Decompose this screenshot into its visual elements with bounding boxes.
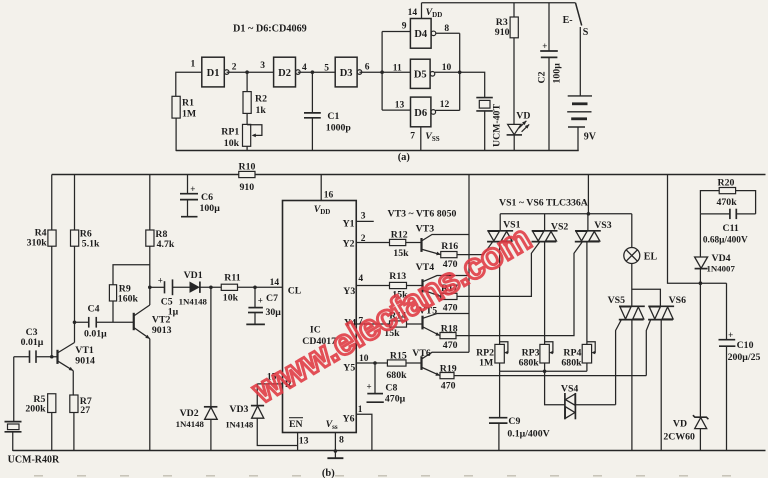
inverter D3 xyxy=(335,57,362,87)
wire: R4 to C3 node xyxy=(51,246,53,357)
svg-text:EL: EL xyxy=(644,252,658,263)
node: output bus junction xyxy=(458,71,462,75)
transistor VT2 9013 xyxy=(134,305,172,451)
svg-text:+: + xyxy=(190,184,195,194)
svg-text:VT3: VT3 xyxy=(416,223,435,234)
resistor R16 470 xyxy=(441,241,459,270)
node: triac bus junction xyxy=(587,212,591,216)
svg-text:Y6: Y6 xyxy=(343,414,355,425)
resistor R17 470 xyxy=(441,283,458,313)
wire: R17 to VS2 gate xyxy=(457,242,540,296)
svg-text:14: 14 xyxy=(270,278,280,288)
wire: VS3 MT1 to RP4 xyxy=(586,242,588,345)
svg-text:D2: D2 xyxy=(278,68,291,79)
wire: rail drop right xyxy=(668,175,727,284)
wire: R1 to ground rail xyxy=(175,118,177,151)
CL label (IC) xyxy=(288,285,302,296)
IC name labels xyxy=(302,325,336,348)
svg-text:C7: C7 xyxy=(266,293,278,304)
pin 8 label (IC) xyxy=(339,435,344,446)
wire: VS2 MT1 to RP3 xyxy=(544,242,546,345)
svg-text:RP1: RP1 xyxy=(221,127,239,138)
svg-text:5: 5 xyxy=(324,64,329,74)
capacitor C1 1000p xyxy=(304,72,351,151)
resistor R7 27 xyxy=(70,395,92,451)
svg-text:200μ/25: 200μ/25 xyxy=(728,352,761,363)
capacitor C7 30u xyxy=(246,287,281,324)
svg-text:R13: R13 xyxy=(389,271,406,282)
svg-text:1N4148: 1N4148 xyxy=(176,419,205,429)
wire: D4 input xyxy=(382,31,410,33)
resistor R20 470k xyxy=(700,177,755,214)
wire: bus to VS4 left xyxy=(545,371,565,404)
node: C10 junction xyxy=(699,281,703,285)
svg-text:2CW60: 2CW60 xyxy=(663,431,695,442)
svg-text:C4: C4 xyxy=(88,303,100,314)
wire: D5 input xyxy=(382,71,410,73)
pin 5 label xyxy=(324,64,329,74)
pin 1 label xyxy=(191,60,196,70)
svg-text:1: 1 xyxy=(191,60,196,70)
pin 12 label xyxy=(440,100,450,110)
svg-text:8: 8 xyxy=(444,24,449,34)
triac VS2 xyxy=(532,214,569,242)
wire: output bus xyxy=(459,33,461,110)
svg-text:R16: R16 xyxy=(441,241,458,252)
svg-text:R20: R20 xyxy=(718,177,735,188)
triac VS6 xyxy=(648,295,686,320)
wire: top rail (b) right of R10 xyxy=(255,174,766,176)
wire: bus to transducer xyxy=(460,72,485,97)
capacitor C6 100u xyxy=(180,175,220,217)
VDD label (IC) xyxy=(314,204,331,216)
svg-text:D5: D5 xyxy=(414,70,427,81)
svg-text:27: 27 xyxy=(80,405,90,416)
svg-text:C2: C2 xyxy=(537,71,548,83)
title: D1~D6 CD4069 xyxy=(233,24,307,35)
wire: D6 input xyxy=(382,109,410,111)
transistor VT3 8050 xyxy=(416,223,469,255)
node: C7 tap xyxy=(253,286,257,290)
pin 8 stem (IC) xyxy=(334,433,336,452)
svg-text:VS4: VS4 xyxy=(561,383,579,394)
wire: R6 to VT1 collector xyxy=(74,246,76,342)
svg-text:D3: D3 xyxy=(340,68,353,79)
node: VD2 tap junction xyxy=(209,286,213,290)
pin 10 label xyxy=(442,63,452,73)
wire: C3 to receiver xyxy=(13,357,15,422)
svg-text:10k: 10k xyxy=(223,292,239,303)
capacitor C3 0.01u xyxy=(14,327,52,363)
wire: R12 to VT3 base xyxy=(406,242,422,244)
svg-text:160k: 160k xyxy=(118,293,139,304)
pin 16 label xyxy=(324,191,334,201)
inverter D4 xyxy=(410,19,435,49)
VDD label xyxy=(426,7,443,19)
wire: ground rail (a) xyxy=(176,150,579,152)
svg-text:13: 13 xyxy=(299,436,309,447)
resistor R13 15k xyxy=(389,271,408,301)
transistor VT1 9014 xyxy=(52,343,95,396)
svg-text:R15: R15 xyxy=(390,351,407,362)
pin 14 label (IC) xyxy=(270,278,280,288)
diode VD2 1N4148 xyxy=(176,287,218,451)
svg-text:VD: VD xyxy=(673,418,687,429)
wire: triac top bus xyxy=(500,213,632,215)
resistor R3 910 xyxy=(495,3,519,124)
wire: D1 out to D2 in xyxy=(227,71,274,73)
resistor R12 15k xyxy=(390,229,410,259)
pin 13 label (IC) xyxy=(299,436,309,447)
svg-text:1M: 1M xyxy=(182,109,196,120)
wire: R14 to VT5 base xyxy=(407,323,423,325)
wire: top rail (b) left of R10 xyxy=(52,174,239,176)
wire: Y6 to ground rail xyxy=(343,405,372,451)
svg-text:1k: 1k xyxy=(256,105,267,116)
svg-text:VD4: VD4 xyxy=(712,253,731,264)
wire: R8 to VT2 collector xyxy=(149,246,151,305)
pin 2 label xyxy=(232,62,237,72)
node: VS4 tap junction xyxy=(543,369,547,373)
pin 14 VDD stem xyxy=(421,3,423,19)
lamp EL xyxy=(624,214,658,264)
wire: D6 output to bus xyxy=(436,109,460,111)
op IC CD4017 box xyxy=(283,201,357,433)
svg-text:30μ: 30μ xyxy=(266,307,282,318)
wire: D5 output to bus xyxy=(435,71,460,73)
resistor R6 5.1k xyxy=(71,175,101,250)
svg-text:7: 7 xyxy=(410,132,415,142)
svg-text:4: 4 xyxy=(358,274,363,284)
triac VS3 xyxy=(575,214,612,242)
wire: R11 to CL pin 14 xyxy=(238,286,283,288)
capacitor C5 1u xyxy=(150,275,190,317)
svg-text:UCM-40T: UCM-40T xyxy=(492,104,503,147)
svg-text:VS2: VS2 xyxy=(551,222,569,233)
R label (IC pin15) xyxy=(285,379,293,390)
wire: Y4 to R14 xyxy=(344,316,390,328)
svg-text:R11: R11 xyxy=(224,272,240,283)
resistor R2 1k xyxy=(243,72,267,116)
svg-text:4.7k: 4.7k xyxy=(157,239,175,250)
svg-text:100μ: 100μ xyxy=(200,203,221,214)
svg-text:910: 910 xyxy=(495,27,510,38)
svg-text:VD1: VD1 xyxy=(184,270,203,281)
svg-text:E-: E- xyxy=(563,15,573,26)
wire: Y5 to R15 xyxy=(343,354,387,373)
wire: R13 to VT4 base xyxy=(407,285,423,287)
switch S xyxy=(563,3,589,96)
resistor R8 4.7k xyxy=(146,175,175,250)
resistor R10 910 xyxy=(239,161,256,193)
inverter D6 xyxy=(411,97,436,127)
svg-text:Y3: Y3 xyxy=(343,286,355,297)
capacitor C8 470u xyxy=(367,363,406,404)
svg-text:8: 8 xyxy=(339,435,344,446)
label VS1~VS6 TLC336A xyxy=(499,197,588,208)
svg-text:R1: R1 xyxy=(182,98,194,109)
svg-text:11: 11 xyxy=(393,63,402,73)
svg-text:D6: D6 xyxy=(414,108,427,119)
svg-text:470: 470 xyxy=(441,381,456,392)
LED VD xyxy=(507,111,531,151)
resistor R1 1M xyxy=(172,96,196,119)
scan edge dashes xyxy=(34,475,742,477)
pin 16 stem xyxy=(320,175,322,201)
svg-text:4: 4 xyxy=(302,63,307,73)
svg-text:VSS: VSS xyxy=(425,131,439,143)
svg-text:R12: R12 xyxy=(391,229,408,240)
diode VD1 1N4148 xyxy=(179,270,222,307)
svg-text:3: 3 xyxy=(361,212,366,222)
node: R2 tap junction xyxy=(245,70,249,74)
wire: D3 out to parallel bus xyxy=(359,71,382,73)
svg-text:+: + xyxy=(258,295,263,305)
node: parallel input junction xyxy=(380,70,384,74)
svg-text:S: S xyxy=(583,27,589,38)
wire: top rail (a) xyxy=(422,2,576,4)
svg-text:Y2: Y2 xyxy=(343,238,355,249)
label (a) xyxy=(398,152,411,163)
capacitor C9 0.1u/400V xyxy=(489,371,550,451)
wire: R19 trigger line xyxy=(454,375,646,377)
svg-text:VT1: VT1 xyxy=(75,345,94,356)
potentiometer RP4 680k xyxy=(561,342,595,371)
diode VD3 1N4148 xyxy=(226,384,298,446)
svg-text:D4: D4 xyxy=(414,29,428,40)
wire: ground rail (b) xyxy=(13,450,766,452)
svg-text:1N4007: 1N4007 xyxy=(707,264,736,274)
capacitor C4 0.01u xyxy=(75,303,134,339)
svg-text:9014: 9014 xyxy=(75,356,95,367)
capacitor C10 200u/25 xyxy=(719,283,761,451)
svg-text:VS6: VS6 xyxy=(669,295,687,306)
svg-text:EN: EN xyxy=(289,419,303,430)
svg-text:VD: VD xyxy=(516,111,530,122)
svg-text:C1: C1 xyxy=(327,111,339,122)
pin 13 label (D6) xyxy=(395,101,405,111)
wire: Y3 to R13 xyxy=(343,274,389,297)
svg-text:0.01μ: 0.01μ xyxy=(84,329,107,340)
pin 14 label xyxy=(408,8,418,18)
node: VT2 collector / C5 junction xyxy=(148,286,152,290)
wire: input bus D4-D6 xyxy=(381,32,383,111)
wire: VS6 MT1 to rail xyxy=(660,320,662,451)
resistor R15 680k xyxy=(386,351,407,381)
svg-text:3: 3 xyxy=(260,61,265,71)
svg-text:C10: C10 xyxy=(737,340,754,351)
triac VS5 xyxy=(608,295,645,320)
svg-text:100μ: 100μ xyxy=(552,63,563,84)
wire: D2 out to D3 in xyxy=(298,71,335,73)
resistor R9 160k xyxy=(109,265,149,323)
svg-text:VS5: VS5 xyxy=(608,295,626,306)
svg-text:9013: 9013 xyxy=(152,325,172,336)
svg-text:C9: C9 xyxy=(508,416,520,427)
wire: RP bottom bus xyxy=(500,370,587,372)
pin 8 label xyxy=(444,24,449,34)
svg-text:0.68μ/400V: 0.68μ/400V xyxy=(703,235,748,245)
wire: EL to VS5/VS6 tops xyxy=(632,264,661,307)
svg-text:R18: R18 xyxy=(441,323,458,334)
potentiometer RP1 10k xyxy=(221,113,262,151)
svg-text:910: 910 xyxy=(240,182,255,193)
svg-text:+: + xyxy=(728,330,733,340)
svg-text:6: 6 xyxy=(365,62,370,72)
wire: VS1 MT1 to RP2 xyxy=(499,242,501,345)
svg-text:1M: 1M xyxy=(479,357,493,368)
Vss label (IC) xyxy=(326,419,338,431)
svg-text:R2: R2 xyxy=(255,94,267,105)
svg-text:+: + xyxy=(367,381,372,391)
node: VT1 collector tap xyxy=(73,320,77,324)
transducer UCM-R40R xyxy=(5,422,61,466)
svg-text:10k: 10k xyxy=(224,138,240,149)
svg-text:12: 12 xyxy=(440,100,450,110)
inverter D2 xyxy=(274,57,301,87)
wire: collector bus xyxy=(468,175,470,353)
svg-text:VD3: VD3 xyxy=(229,404,248,415)
node: C1 tap junction xyxy=(311,70,315,74)
svg-text:IN4148: IN4148 xyxy=(226,420,254,430)
wire: D1 input from R1 xyxy=(176,72,202,96)
wire: Y2 to R12 xyxy=(343,234,390,250)
inverter D5 xyxy=(410,59,434,88)
transistor VT5 8050 xyxy=(419,305,469,335)
triac VS1 xyxy=(487,214,521,242)
pin 7 VSS stem xyxy=(420,127,422,151)
svg-text:470: 470 xyxy=(443,340,458,351)
svg-text:VS1 ~ VS6 TLC336A: VS1 ~ VS6 TLC336A xyxy=(499,197,588,208)
pin 6 label xyxy=(365,62,370,72)
zener VD 2CW60 xyxy=(663,283,708,451)
label VT3~VT6 8050 xyxy=(388,208,457,219)
svg-text:(a): (a) xyxy=(398,152,411,163)
inverter D1 xyxy=(202,57,229,87)
node: C8 tap xyxy=(373,361,377,365)
pin 3 label xyxy=(260,61,265,71)
transducer UCM-40T xyxy=(476,98,502,151)
svg-text:VS3: VS3 xyxy=(594,220,612,231)
svg-text:16: 16 xyxy=(324,191,334,201)
svg-text:D1: D1 xyxy=(207,68,220,79)
svg-text:C6: C6 xyxy=(201,192,213,203)
svg-text:C11: C11 xyxy=(723,223,739,234)
svg-text:5.1k: 5.1k xyxy=(82,238,100,249)
svg-text:CL: CL xyxy=(288,285,302,296)
svg-text:310k: 310k xyxy=(27,237,48,248)
wire: VS6 gate xyxy=(646,320,650,376)
transistor VT6 8050 xyxy=(412,348,469,376)
pin 9 label xyxy=(402,22,407,32)
resistor R4 310k xyxy=(27,175,57,249)
svg-text:470k: 470k xyxy=(717,197,738,208)
capacitor C2 100u xyxy=(537,3,563,151)
pin 4 label xyxy=(302,63,307,73)
svg-text:1μ: 1μ xyxy=(168,306,179,317)
resistor R5 200k xyxy=(25,394,55,451)
svg-text:Vss: Vss xyxy=(326,419,338,431)
EN label (IC) xyxy=(289,418,303,430)
svg-text:R10: R10 xyxy=(239,161,256,172)
resistor R14 15k xyxy=(384,310,406,339)
svg-text:2: 2 xyxy=(361,234,366,244)
battery 9V xyxy=(567,96,597,151)
wire: R15 to VT6 base xyxy=(406,362,422,364)
wire: rail drop to triac bus xyxy=(587,175,589,214)
svg-text:680k: 680k xyxy=(386,370,407,381)
resistor R11 10k xyxy=(221,272,240,303)
diode VD4 1N4007 xyxy=(695,214,736,283)
watermark www.elecfans.com xyxy=(244,217,537,412)
svg-text:14: 14 xyxy=(408,8,418,18)
svg-text:10: 10 xyxy=(442,63,452,73)
triac VS4 xyxy=(561,383,616,419)
svg-text:0.01μ: 0.01μ xyxy=(21,337,44,348)
svg-text:1N4148: 1N4148 xyxy=(179,296,208,306)
svg-text:1000p: 1000p xyxy=(326,123,352,134)
pin 15 label (IC) xyxy=(267,373,277,383)
svg-text:C8: C8 xyxy=(385,383,397,394)
capacitor C11 0.68u/400V xyxy=(700,209,755,246)
svg-text:VDD: VDD xyxy=(426,7,443,19)
svg-text:13: 13 xyxy=(395,101,405,111)
svg-text:+: + xyxy=(158,275,163,285)
resistor R18 470 xyxy=(440,323,458,351)
svg-text:0.1μ/400V: 0.1μ/400V xyxy=(507,428,549,439)
potentiometer RP3 680k xyxy=(519,342,553,371)
resistor R19 470 xyxy=(440,363,457,391)
svg-text:15k: 15k xyxy=(393,248,409,259)
svg-text:2: 2 xyxy=(232,62,237,72)
svg-text:UCM-R40R: UCM-R40R xyxy=(8,455,60,466)
svg-text:D1 ~ D6:CD4069: D1 ~ D6:CD4069 xyxy=(233,24,307,35)
svg-text:680k: 680k xyxy=(519,357,540,368)
svg-text:9V: 9V xyxy=(584,132,597,143)
label (b) xyxy=(322,468,335,478)
svg-text:(b): (b) xyxy=(322,468,335,478)
wire: D4 output to bus xyxy=(436,32,460,34)
node: C3-base junction xyxy=(50,355,54,359)
svg-text:200k: 200k xyxy=(25,404,46,415)
wire: VS5 gate xyxy=(616,320,622,405)
svg-text:VDD: VDD xyxy=(314,204,331,216)
wire: R16 to VS1 gate xyxy=(457,242,492,254)
svg-text:VD2: VD2 xyxy=(180,408,199,419)
VSS label xyxy=(425,131,439,143)
potentiometer RP2 1M xyxy=(476,342,508,371)
svg-text:470μ: 470μ xyxy=(385,393,406,404)
pin 7 label xyxy=(410,132,415,142)
svg-text:R19: R19 xyxy=(440,363,457,374)
svg-text:9: 9 xyxy=(402,22,407,32)
svg-text:Y1: Y1 xyxy=(343,218,355,229)
svg-text:1: 1 xyxy=(358,405,363,415)
pin 13 stem (IC) xyxy=(297,433,299,452)
transistor VT4 8050 xyxy=(416,262,469,297)
svg-text:VT6: VT6 xyxy=(412,348,431,359)
node: pin 8 ground junction xyxy=(327,449,343,458)
pin 11 label xyxy=(393,63,402,73)
svg-text:680k: 680k xyxy=(561,357,582,368)
svg-text:+: + xyxy=(542,41,547,51)
svg-text:VT3 ~ VT6 8050: VT3 ~ VT6 8050 xyxy=(388,208,457,219)
pin Y1 stub xyxy=(343,212,374,230)
wire: R18 to VS3 gate xyxy=(456,242,582,335)
wire: VS5 MT1 to rail xyxy=(631,320,633,451)
